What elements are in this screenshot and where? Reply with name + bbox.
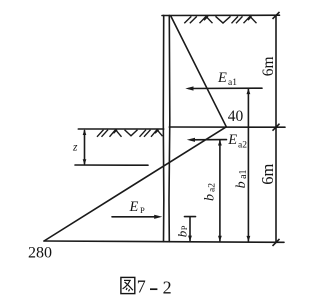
Ea1 pressure hypotenuse <box>171 16 227 127</box>
svg-text:b: b <box>174 230 189 237</box>
svg-text:z: z <box>72 142 78 154</box>
label 6m bottom rotated <box>258 163 277 184</box>
wall right line <box>168 15 171 241</box>
svg-text:2: 2 <box>163 277 172 297</box>
net pressure line 40 to 280 <box>44 127 226 241</box>
svg-text:E: E <box>217 70 227 86</box>
tick 6m bottom <box>273 239 280 246</box>
dimension line bP <box>189 217 191 241</box>
caption dash <box>150 288 157 290</box>
z extension line <box>75 164 148 166</box>
dimension line z <box>84 131 86 165</box>
svg-text:280: 280 <box>28 244 52 261</box>
hatching ground right <box>184 16 256 23</box>
svg-text:6m: 6m <box>260 56 277 76</box>
tick 6m top <box>273 12 280 19</box>
svg-text:P: P <box>179 225 189 230</box>
svg-text:7: 7 <box>137 277 146 297</box>
svg-text:a2: a2 <box>238 141 247 151</box>
svg-text:P: P <box>140 205 145 215</box>
wall left line <box>162 15 165 241</box>
svg-text:40: 40 <box>228 108 244 125</box>
arrowhead ba1 top <box>247 88 251 94</box>
svg-text:b: b <box>234 181 249 188</box>
arrow line Ea1 <box>189 87 262 89</box>
dimension line ba2 <box>219 140 221 241</box>
label ba2 rotated <box>202 183 217 201</box>
dimension line 6m <box>275 15 277 242</box>
label bP rotated <box>174 225 189 237</box>
caption glyph 图 <box>121 277 135 293</box>
arrowhead z top <box>83 129 87 135</box>
arrowhead EP <box>154 215 162 219</box>
arrowhead ba2 top <box>218 140 222 146</box>
svg-text:a2: a2 <box>207 183 217 192</box>
svg-text:E: E <box>129 199 139 215</box>
dimension cap bP <box>185 216 196 218</box>
svg-text:b: b <box>202 194 217 201</box>
arrowhead Ea1 <box>185 86 193 90</box>
arrow line Ea2 <box>191 139 227 141</box>
arrowhead bP bottom <box>188 236 192 242</box>
arrowhead z bottom <box>83 159 87 165</box>
ground surface right <box>162 14 280 16</box>
svg-text:E: E <box>227 132 237 148</box>
label 6m top rotated <box>260 56 277 76</box>
tick 6m middle <box>273 124 280 131</box>
arrowhead ba1 bottom <box>247 236 251 242</box>
label ba1 rotated <box>234 169 249 188</box>
bottom baseline <box>44 241 284 242</box>
ground surface left (dredge line) <box>78 128 163 130</box>
arrow line EP <box>112 216 157 218</box>
svg-text:6m: 6m <box>258 163 277 184</box>
dredge level line right <box>169 126 285 128</box>
hatching ground left <box>97 130 163 137</box>
arrowhead Ea2 <box>187 138 195 142</box>
arrowhead ba2 bottom <box>218 236 222 242</box>
svg-text:a1: a1 <box>238 169 249 178</box>
svg-text:a1: a1 <box>228 78 237 88</box>
dimension line ba1 <box>247 89 249 241</box>
